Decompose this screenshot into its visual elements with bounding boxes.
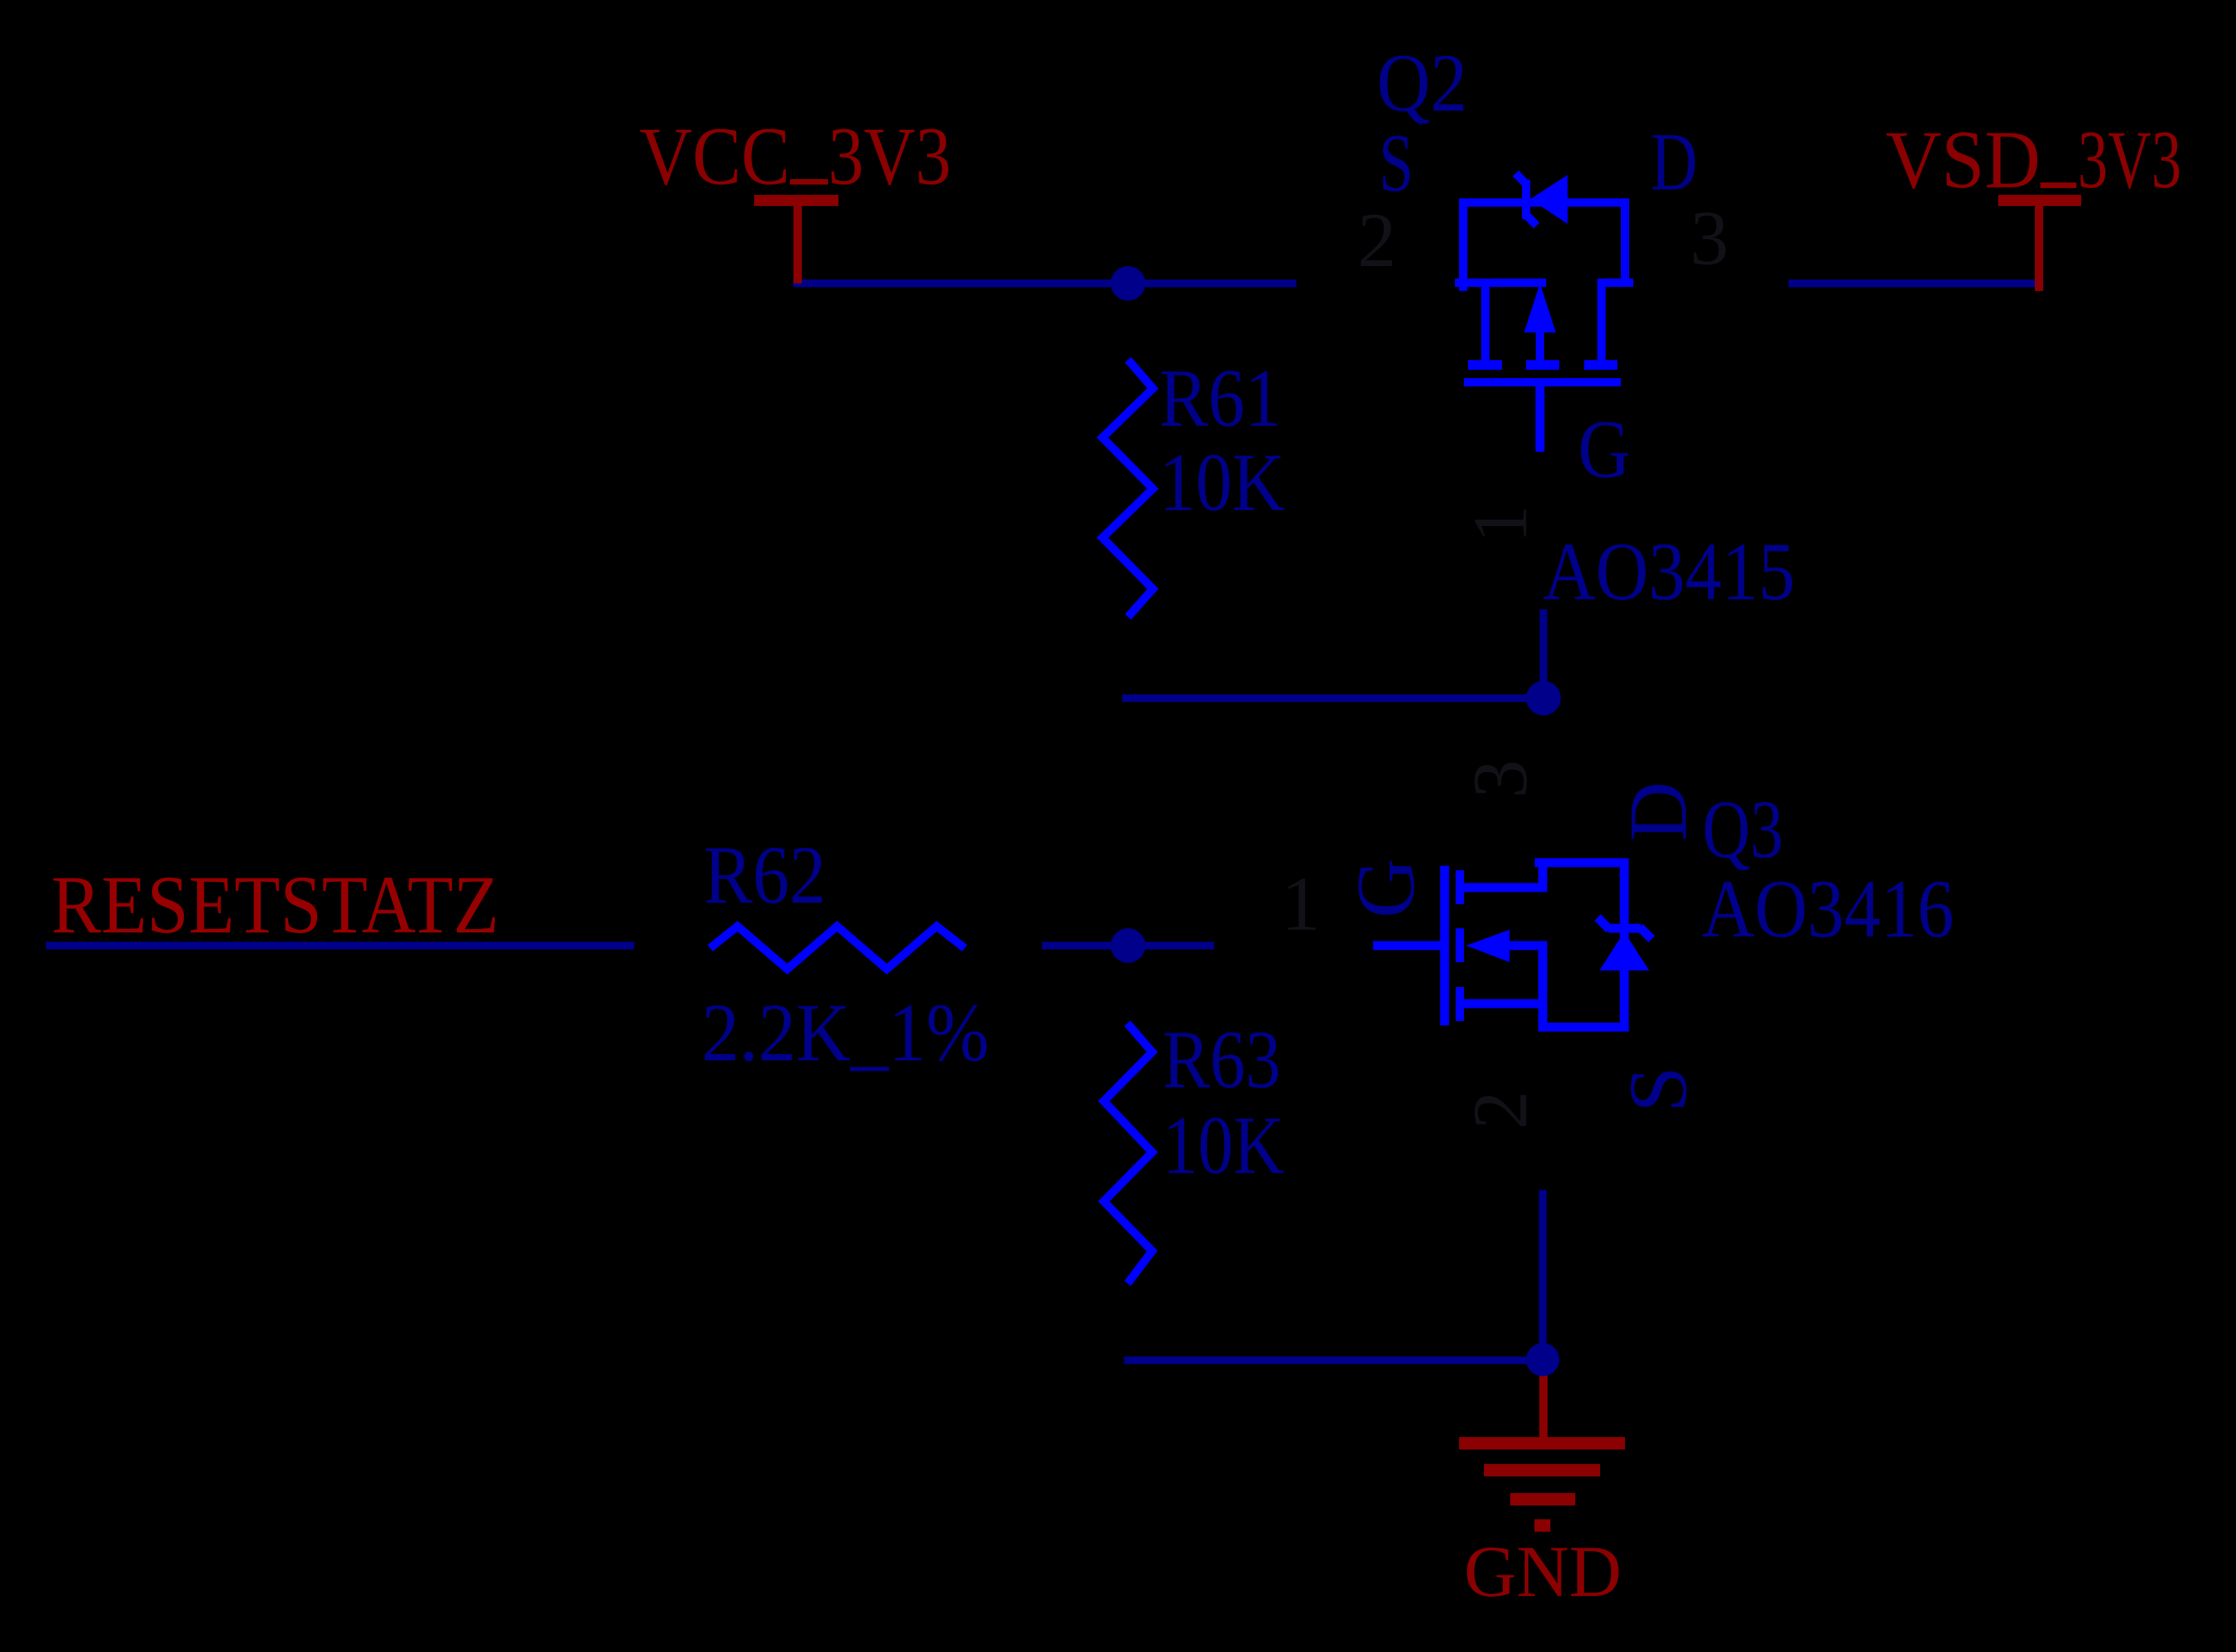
svg-text:2.2K_1%: 2.2K_1% bbox=[702, 986, 989, 1078]
svg-text:3V3: 3V3 bbox=[828, 110, 951, 202]
svg-text:10K: 10K bbox=[1163, 1099, 1284, 1191]
svg-text:3: 3 bbox=[1458, 760, 1543, 798]
svg-text:D: D bbox=[1612, 782, 1704, 842]
svg-text:S: S bbox=[1379, 117, 1413, 209]
svg-text:G: G bbox=[1340, 858, 1431, 919]
svg-text:R61: R61 bbox=[1159, 352, 1281, 444]
svg-text:S: S bbox=[1612, 1067, 1704, 1113]
svg-text:GND: GND bbox=[1464, 1531, 1622, 1612]
svg-text:AO3416: AO3416 bbox=[1702, 863, 1954, 955]
svg-text:VSD: VSD bbox=[1886, 113, 2040, 205]
svg-text:G: G bbox=[1578, 403, 1631, 495]
svg-text:2: 2 bbox=[1357, 198, 1396, 283]
svg-text:R62: R62 bbox=[704, 829, 826, 921]
svg-text:Q2: Q2 bbox=[1377, 37, 1467, 129]
svg-text:Q3: Q3 bbox=[1702, 783, 1783, 875]
svg-text:1: 1 bbox=[1458, 505, 1543, 543]
svg-text:10K: 10K bbox=[1159, 436, 1285, 528]
svg-text:AO3415: AO3415 bbox=[1543, 525, 1795, 617]
svg-text:RESETSTATZ: RESETSTATZ bbox=[51, 858, 499, 950]
svg-text:D: D bbox=[1651, 115, 1698, 207]
svg-text:3: 3 bbox=[1690, 196, 1729, 281]
svg-text:R63: R63 bbox=[1163, 1013, 1281, 1105]
svg-text:2: 2 bbox=[1458, 1091, 1543, 1129]
svg-text:3V3: 3V3 bbox=[2078, 113, 2181, 205]
svg-text:VCC: VCC bbox=[639, 110, 790, 202]
svg-text:1: 1 bbox=[1281, 861, 1320, 947]
